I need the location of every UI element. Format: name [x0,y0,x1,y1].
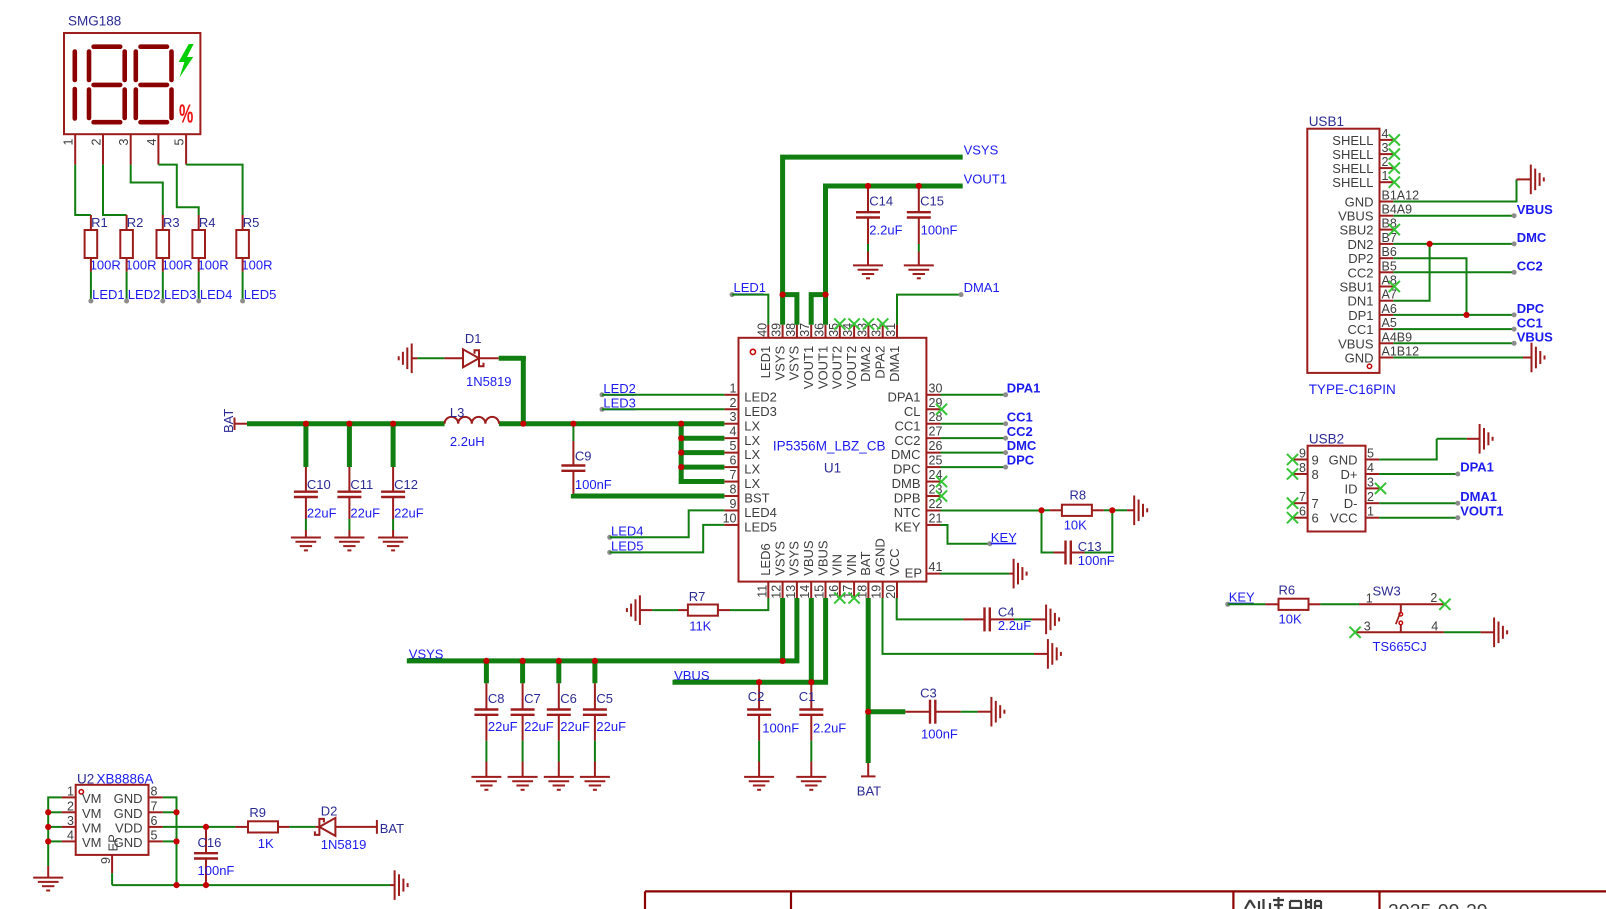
svg-text:LED5: LED5 [744,520,777,535]
svg-text:VIN: VIN [844,554,859,576]
net flag LED4 [607,535,612,540]
U1 top pin 31 DMA1 [896,325,898,338]
USB2 right pin 5 GND [1366,459,1380,461]
svg-text:37: 37 [798,323,812,337]
svg-text:NTC: NTC [894,505,921,520]
svg-text:LED4: LED4 [744,505,777,520]
net flag LED5 [607,550,612,555]
USB2 right pin 1 VCC [1366,517,1380,519]
wire SW3 pin 4 to ground [1444,631,1481,633]
svg-text:C1: C1 [799,689,816,704]
svg-text:22uF: 22uF [560,719,590,734]
wire junction at 305.9,423.7 [303,421,309,427]
svg-text:VSYS: VSYS [772,345,787,380]
U1 bottom pin 20 VCC [896,582,898,598]
ground for U2 VM [33,877,63,879]
port BAT (bottom) [867,763,869,776]
svg-text:6: 6 [151,814,158,828]
U1 right pin 27 CC2 [926,437,940,439]
svg-text:BAT: BAT [380,821,404,836]
svg-text:SHELL: SHELL [1332,175,1373,190]
svg-text:9: 9 [1312,453,1319,468]
U1 top pin 36 VOUT1 [825,325,827,338]
svg-text:C2: C2 [748,689,765,704]
svg-text:VOUT1: VOUT1 [801,346,816,389]
capacitor C13 100nF [1042,510,1054,552]
svg-text:LX: LX [744,476,760,491]
wire KEY to R6 [1228,603,1266,605]
U1 left pin 4 LX [724,437,738,439]
svg-text:3: 3 [1367,475,1374,489]
svg-text:VCC: VCC [887,548,902,575]
svg-text:D+: D+ [1341,467,1358,482]
USB1 pin 4 SHELL [1380,139,1394,141]
svg-text:8: 8 [730,483,737,497]
svg-text:2.2uF: 2.2uF [869,222,902,237]
U1 left pin 8 BST [724,495,738,497]
U1 left pin 2 LED3 [724,408,738,410]
no-connect X on U1 pin 29 [936,404,947,415]
svg-text:CC1: CC1 [894,418,920,433]
svg-text:2: 2 [90,138,104,145]
wire junction at 782.6,660.9 [780,658,786,664]
svg-text:100nF: 100nF [198,863,235,878]
U1 right pin 23 DPB [926,495,940,497]
wire junction at 349.4,423.7 [346,421,352,427]
resistor R1 [85,230,98,258]
svg-text:BST: BST [744,491,769,506]
U1 bottom pin 12 VSYS [782,582,784,598]
USB1 pin B1A12 GND [1380,201,1394,203]
svg-text:3: 3 [730,410,737,424]
svg-text:4: 4 [1367,461,1374,475]
wire junction at 176.5,841.4 [173,838,179,844]
svg-text:VOUT1: VOUT1 [815,346,830,389]
wire junction at 681.2,452.6 [678,450,684,456]
svg-text:100R: 100R [198,258,229,273]
ground for C3 [990,697,992,727]
U2 left pin 1 VM [62,796,76,798]
svg-text:19: 19 [870,585,884,599]
capacitor C12 [391,424,396,467]
svg-text:VBUS: VBUS [815,540,830,576]
svg-text:B5: B5 [1382,259,1397,273]
svg-text:1: 1 [1382,169,1389,183]
thick wire VSYS top rail [783,157,963,295]
svg-text:100nF: 100nF [762,720,799,735]
svg-text:C14: C14 [869,193,893,208]
svg-text:R3: R3 [163,215,180,230]
svg-text:CC2: CC2 [1517,259,1543,274]
no-connect X SW3 pin 2 [1439,599,1450,610]
svg-text:39: 39 [770,323,784,337]
capacitor C6 22uF [556,661,561,683]
wire junction at 811.3,682.2 [808,679,814,685]
thick wire VBUS rail [673,598,826,682]
wire LED1 to pin 40 [732,295,768,325]
thick wire pin12 drop [780,598,785,661]
no-connect X on U1 top pin [849,318,860,329]
svg-text:30: 30 [929,381,943,395]
svg-text:22uF: 22uF [488,719,518,734]
U1 left pin 10 LED5 [724,524,738,526]
svg-text:3: 3 [67,814,74,828]
ground for C5 [580,776,610,778]
thick wire pin14 drop [809,598,814,682]
svg-text:8: 8 [1312,467,1319,482]
svg-text:C9: C9 [575,449,592,464]
USB1 pin B5 CC2 [1380,271,1394,273]
wire U2 VM pins to ground [48,797,61,866]
thick wire BAT rail right of L3 [499,421,724,426]
U1 right pin 29 CL [926,408,940,410]
wire USB1 DN2 B7 to DMC [1393,243,1514,245]
U1 left pin 9 LED4 [724,509,738,511]
SMG188 pin 2 [102,134,104,164]
wire ground to D1 [417,357,444,359]
svg-text:VCC: VCC [1330,511,1357,526]
svg-text:IP5356M_LBZ_CB: IP5356M_LBZ_CB [773,439,886,454]
svg-text:DMA2: DMA2 [858,346,873,382]
svg-text:22uF: 22uF [350,505,380,520]
USB1 pin B8 SBU2 [1380,229,1394,231]
svg-text:10K: 10K [1064,518,1087,533]
svg-text:5: 5 [173,138,187,145]
no-connect X USB1 pin 4 [1389,134,1400,145]
svg-text:CC1: CC1 [1007,409,1033,424]
svg-text:LED3: LED3 [603,396,636,411]
svg-text:4: 4 [1382,127,1389,141]
connector USB2 body [1308,446,1366,532]
svg-text:VM: VM [82,791,102,806]
svg-text:7: 7 [151,799,158,813]
svg-text:KEY: KEY [894,520,920,535]
wire U1 to net flag CC2 [941,437,1006,439]
ground for C8 [471,776,501,778]
USB2 left pin 8 [1294,473,1308,475]
svg-text:DPA1: DPA1 [1460,460,1494,475]
USB1 pin B4A9 VBUS [1380,215,1394,217]
USB1 pin A1B12 GND [1380,357,1394,359]
svg-text:6: 6 [1299,505,1306,519]
no-connect X USB1 pin 1 [1389,177,1400,188]
svg-text:DN2: DN2 [1347,237,1373,252]
svg-text:LED2: LED2 [128,287,161,302]
svg-text:21: 21 [929,511,943,525]
ground for C6 [544,776,574,778]
svg-text:CC1: CC1 [1517,315,1543,330]
wire junction at 48.2,841.4 [45,838,51,844]
svg-text:28: 28 [929,410,943,424]
digit 8 (first) segments [94,44,121,49]
svg-text:AGND: AGND [873,538,888,576]
wire pin3 to R3 [131,165,163,215]
net flag LED2 [124,299,129,304]
wire DMA1 from pin 31 [897,295,961,325]
no-connect X on U1 top pin [863,318,874,329]
svg-text:R6: R6 [1279,583,1296,598]
wire KEY pin 21 [941,525,990,544]
svg-text:5: 5 [151,828,158,842]
svg-text:DPC: DPC [1007,453,1035,468]
svg-text:ID: ID [1345,481,1358,496]
U1 bottom pin 11 LED6 [767,582,769,598]
resistor R4 [192,230,205,258]
net flag DMA1 top [959,292,964,297]
ground for USB1 A1B12 [1531,343,1533,373]
wire R8 to ground [1112,509,1127,511]
svg-text:1K: 1K [258,836,274,851]
net flag LED4 [196,299,201,304]
wire USB1 VBUS A4B9 [1393,342,1514,344]
port BAT (right of D2) [376,820,378,834]
svg-text:SHELL: SHELL [1332,133,1373,148]
wire USB1 DN1 A7 up to DN2 [1393,244,1429,301]
wire NTC pin 22 [941,509,1042,511]
svg-text:R9: R9 [249,805,266,820]
svg-text:GND: GND [1345,195,1374,210]
ground for C1 [796,776,826,778]
title block text 创建日期 (clipped) [1245,897,1321,909]
svg-text:6: 6 [1312,511,1319,526]
wire junction at 522.6,660.9 [520,658,526,664]
resistor R7 11K [688,605,718,616]
svg-text:LED3: LED3 [164,287,197,302]
svg-text:A1B12: A1B12 [1382,345,1420,359]
thick wire LX pin6 branch [681,465,724,470]
wire USB1 CC2 B5 [1393,271,1514,273]
U1 right pin 21 KEY [926,524,940,526]
wire junction at 176.5,885.1 [173,882,179,888]
ground for C2 [744,776,774,778]
svg-text:B4A9: B4A9 [1382,203,1413,217]
svg-text:CC2: CC2 [1007,424,1033,439]
svg-text:13: 13 [784,585,798,599]
svg-text:VSYS: VSYS [772,541,787,576]
svg-text:B7: B7 [1382,231,1397,245]
svg-text:SHELL: SHELL [1332,147,1373,162]
svg-text:22: 22 [929,497,943,511]
svg-text:4: 4 [1431,620,1438,634]
U1 left pin 5 LX [724,452,738,454]
net flag KEY at SW3 [1225,602,1230,607]
resistor R8 10K [1062,505,1092,516]
svg-text:CL: CL [904,404,921,419]
net flag LED3 [600,407,605,412]
resistor R2 [120,230,133,258]
svg-text:DMB: DMB [892,476,921,491]
svg-text:14: 14 [798,585,812,599]
svg-text:U1: U1 [824,461,841,476]
svg-text:EP: EP [106,834,121,851]
net flag KEY at U1 [987,541,992,546]
thick wire BAT pin18 drop [866,598,871,763]
resistor R5 [236,230,249,258]
svg-text:A7: A7 [1382,288,1397,302]
U1 right pin 26 DMC [926,452,940,454]
wire junction at 681.2,467.1 [678,464,684,470]
wire USB1 CC1 A5 [1393,328,1514,330]
U2 right pin 5 GND [149,840,163,842]
svg-text:5: 5 [730,439,737,453]
svg-text:VBUS: VBUS [1517,330,1553,345]
USB1 pin A5 CC1 [1380,328,1394,330]
ground for R8 [1133,496,1135,526]
wire U1 to net flag DMC [941,452,1006,454]
svg-text:VSYS: VSYS [787,541,802,576]
ground for SW3 [1493,618,1495,648]
wire junction at 523.3,423.7 [520,421,526,427]
svg-text:VBUS: VBUS [801,540,816,576]
svg-text:10K: 10K [1279,612,1302,627]
svg-text:7: 7 [1312,496,1319,511]
svg-text:40: 40 [755,323,769,337]
svg-text:LED1: LED1 [734,280,767,295]
svg-text:2: 2 [1367,490,1374,504]
svg-text:4: 4 [67,828,74,842]
svg-text:LX: LX [744,418,760,433]
svg-text:LED6: LED6 [758,543,773,576]
svg-text:38: 38 [784,323,798,337]
wire LED5 to pin 10 [610,525,725,553]
svg-text:22uF: 22uF [307,505,337,520]
svg-text:CC2: CC2 [894,433,920,448]
svg-text:1: 1 [67,784,74,798]
svg-text:VOUT2: VOUT2 [830,346,845,389]
resistor R3 [157,230,170,258]
U1 bottom pin 15 VBUS [825,582,827,598]
no-connect X USB1 pin 2 [1389,163,1400,174]
junction NTC at R8 left [1042,509,1050,511]
U2 right pin 8 GND [149,796,163,798]
capacitor C7 22uF [520,661,525,683]
svg-text:DPC: DPC [893,462,920,477]
digit 1 segments [73,52,78,81]
svg-text:EP: EP [905,565,922,580]
svg-text:D-: D- [1344,496,1358,511]
USB1 pin A6 DP1 [1380,314,1394,316]
USB2 right pin 2 D- [1366,502,1380,504]
wire junction at 393.1,423.7 [390,421,396,427]
svg-text:LED4: LED4 [611,524,644,539]
U1 bottom pin 18 BAT [867,582,869,598]
wire U1 to net flag CC1 [941,423,1006,425]
svg-text:12: 12 [770,585,784,599]
svg-text:LED3: LED3 [744,404,777,419]
svg-text:100nF: 100nF [921,726,958,741]
thick wire LX pin4 branch [681,436,724,441]
svg-text:DPA1: DPA1 [1007,380,1041,395]
ground for R7 [639,595,641,625]
svg-text:USB1: USB1 [1309,114,1344,129]
svg-text:VSYS: VSYS [787,345,802,380]
svg-text:C13: C13 [1078,539,1102,554]
ground for C7 [508,776,538,778]
svg-text:BAT: BAT [857,784,881,799]
svg-text:2: 2 [67,799,74,813]
wire junction at 573.4,423.7 [570,421,576,427]
capacitor C5 22uF [592,661,597,683]
USB2 left pin 9 [1294,459,1308,461]
svg-text:5: 5 [1367,447,1374,461]
wire USB2 VCC to VOUT1 [1379,517,1458,519]
USB1 pin A8 SBU1 [1380,286,1394,288]
wire junction at 176.5,812.3 [173,809,179,815]
thick wire BAT rail left segment [247,421,445,426]
wire junction at 782.6,294.6 [780,292,786,298]
svg-text:R8: R8 [1070,488,1087,503]
U1 right pin 22 NTC [926,509,940,511]
svg-text:2025-09-29: 2025-09-29 [1388,901,1488,909]
svg-text:VSYS: VSYS [964,142,999,157]
capacitor C14 [867,186,869,212]
svg-text:DMA1: DMA1 [964,280,1000,295]
no-connect X on U1 pin 24 [936,476,947,487]
capacitor C11 [347,424,352,467]
capacitor C4 2.2uF [983,607,985,631]
thick wire D1 to BAT rail [499,356,521,361]
USB2 right pin 3 ID [1366,487,1380,489]
svg-text:TS665CJ: TS665CJ [1373,639,1427,654]
U1 top pin 35 VOUT2 [839,325,841,338]
svg-text:B1A12: B1A12 [1382,189,1420,203]
U1 top pin 38 VSYS [796,325,798,338]
svg-text:CC1: CC1 [1347,322,1373,337]
svg-text:VBUS: VBUS [1338,209,1374,224]
svg-text:SW3: SW3 [1373,584,1401,599]
svg-text:VM: VM [82,806,102,821]
ground for C12 [378,537,408,539]
svg-text:LED5: LED5 [244,287,277,302]
svg-text:C11: C11 [350,477,373,492]
U1 right pin 25 DPC [926,466,940,468]
digit 8 (second) segments [141,44,168,49]
svg-text:C5: C5 [596,691,613,706]
svg-text:DPA1: DPA1 [888,389,921,404]
SMG188 pin 4 [157,134,159,164]
wire junction at 1429.6,243.9 [1427,241,1433,247]
svg-text:SMG188: SMG188 [68,14,121,29]
svg-text:7: 7 [730,468,737,482]
USB2 left pin 6 [1294,517,1308,519]
svg-text:VIN: VIN [830,554,845,576]
SMG188 pin 5 [185,134,187,164]
diode D1 1N5819 [463,349,479,367]
svg-text:3: 3 [1364,620,1371,634]
wire USB1 VBUS B4A9 [1393,215,1514,217]
svg-text:LED2: LED2 [603,381,636,396]
U1 top pin 39 VSYS [782,325,784,338]
svg-text:11: 11 [755,585,769,598]
svg-text:DN1: DN1 [1347,294,1373,309]
wire junction at 1041.5,510.3 [1038,507,1044,513]
svg-text:11K: 11K [689,619,711,634]
svg-text:B6: B6 [1382,245,1397,259]
svg-text:BAT: BAT [858,551,873,575]
wire EP pin 41 to ground [941,573,1010,575]
svg-text:A5: A5 [1382,316,1397,330]
ground for C10 [291,537,321,539]
thick wire pin 36 stub [823,295,828,325]
USB1 pin 2 SHELL [1380,167,1394,169]
ground for U2 bottom rail [394,870,396,900]
wire ground to R7 [652,609,678,611]
wire LED2 to pin 1 [602,394,724,396]
svg-text:26: 26 [929,439,943,453]
no-connect X on U1 top pin [834,318,845,329]
svg-text:100R: 100R [162,258,193,273]
svg-text:8: 8 [151,784,158,798]
